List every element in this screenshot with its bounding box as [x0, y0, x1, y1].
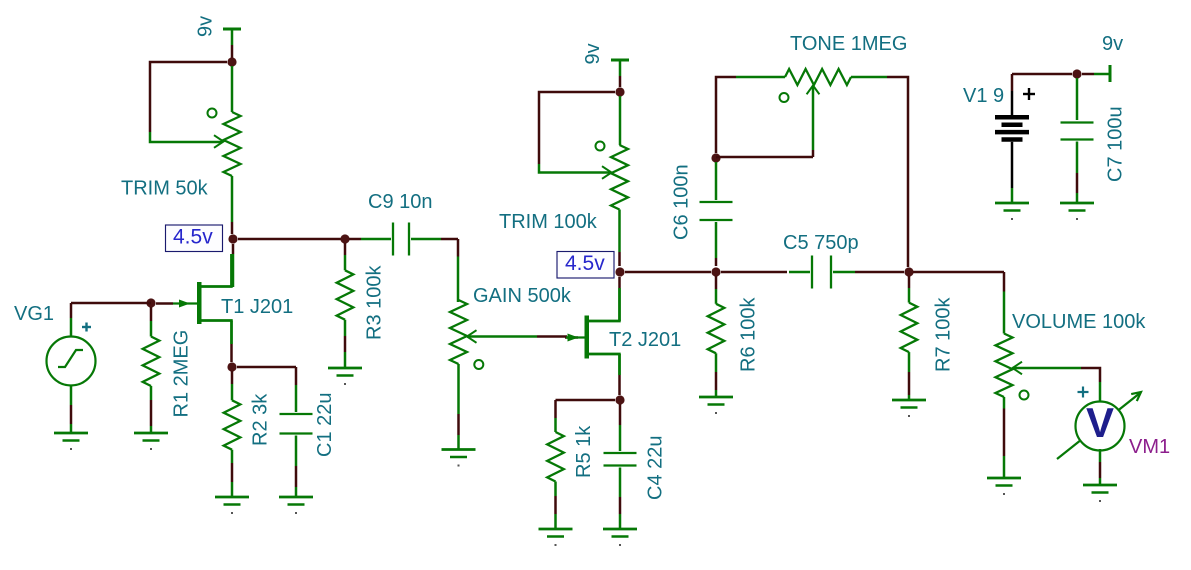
svg-text:VOLUME 100k: VOLUME 100k: [1012, 311, 1146, 333]
svg-text:C6 100n: C6 100n: [671, 164, 693, 240]
svg-text:9v: 9v: [1102, 33, 1123, 55]
svg-text:V: V: [1086, 399, 1114, 446]
svg-text:R5 1k: R5 1k: [573, 425, 595, 478]
svg-text:C1 22u: C1 22u: [314, 393, 336, 458]
svg-text:R3 100k: R3 100k: [364, 265, 386, 340]
svg-text:TONE 1MEG: TONE 1MEG: [790, 33, 907, 55]
svg-text:TRIM 50k: TRIM 50k: [121, 178, 209, 200]
svg-text:R6 100k: R6 100k: [738, 297, 760, 372]
svg-text:VG1: VG1: [14, 303, 54, 325]
svg-text:R7 100k: R7 100k: [933, 297, 955, 372]
svg-text:C4 22u: C4 22u: [645, 436, 667, 501]
svg-text:R1 2MEG: R1 2MEG: [171, 330, 193, 418]
svg-text:9v: 9v: [582, 43, 604, 64]
svg-text:C5 750p: C5 750p: [783, 232, 859, 254]
svg-text:TRIM 100k: TRIM 100k: [499, 211, 598, 233]
svg-text:4.5v: 4.5v: [173, 226, 213, 249]
svg-text:C9 10n: C9 10n: [368, 191, 433, 213]
svg-text:T2 J201: T2 J201: [609, 329, 681, 351]
svg-text:C7 100u: C7 100u: [1105, 106, 1127, 182]
svg-text:T1 J201: T1 J201: [221, 296, 293, 318]
svg-text:V1 9: V1 9: [963, 85, 1004, 107]
svg-text:9v: 9v: [195, 16, 217, 37]
svg-text:R2 3k: R2 3k: [250, 393, 272, 446]
svg-text:VM1: VM1: [1129, 436, 1170, 458]
svg-text:GAIN 500k: GAIN 500k: [473, 285, 572, 307]
svg-text:4.5v: 4.5v: [565, 252, 605, 275]
